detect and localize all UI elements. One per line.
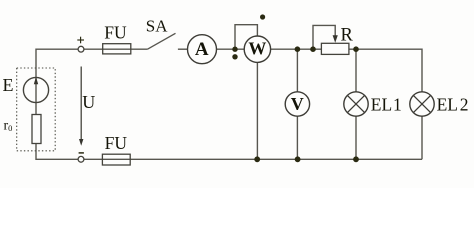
source E arrow: [34, 77, 38, 84]
wattmeter voltage-coil bracket: [235, 25, 257, 50]
wire: + terminal to FU, through fuse: [84, 48, 147, 50]
wire: wattmeter to R left edge: [271, 48, 322, 50]
switch SA blade: [148, 33, 176, 49]
wire: V branch top: [296, 49, 298, 92]
resistor r0: [32, 115, 41, 144]
fuse FU top: [103, 44, 131, 54]
lamp EL2: [410, 92, 434, 116]
rheostat wiper arrowhead: [333, 35, 338, 43]
svg-text:EL2: EL2: [437, 94, 469, 114]
rheostat wiper arm: [313, 25, 335, 49]
node: wiper junction: [310, 46, 316, 52]
wire: R right to EL2 corner and down: [349, 49, 422, 92]
svg-text:R: R: [341, 26, 354, 46]
wire: switch to ammeter: [178, 48, 188, 50]
+ terminal: [78, 46, 84, 52]
wire: W bottom branch: [256, 62, 258, 159]
wire bottom: - terminal through FU to EL2: [84, 158, 422, 160]
wattmeter W: [244, 36, 270, 62]
- terminal: [78, 156, 84, 162]
wire: EL1 branch top: [355, 49, 357, 92]
fuse FU bottom: [102, 154, 130, 165]
dashed box around source: [17, 68, 56, 151]
wire: V branch bottom: [296, 116, 298, 159]
wire: source top to + terminal: [36, 49, 78, 114]
svg-text:A: A: [195, 39, 209, 60]
svg-text:V: V: [291, 94, 304, 114]
+ label: [77, 37, 84, 44]
node: W bottom junction: [254, 156, 260, 162]
node: V branch top junction: [295, 46, 301, 52]
wattmeter floating dot top: [260, 14, 265, 19]
svg-text:r0: r0: [4, 118, 13, 133]
ammeter A: [188, 35, 217, 64]
svg-text:W: W: [248, 39, 266, 59]
svg-text:FU: FU: [104, 23, 127, 43]
source E circle: [23, 77, 48, 102]
svg-text:EL1: EL1: [371, 94, 402, 114]
node: EL1 top junction: [353, 46, 359, 52]
- label: [79, 152, 84, 154]
rheostat R: [321, 43, 349, 54]
wattmeter terminal dot on wire: [232, 47, 237, 52]
wire: EL1 branch bottom: [355, 116, 357, 159]
voltmeter V: [285, 92, 309, 116]
wattmeter terminal dot below wire: [232, 54, 237, 59]
wire: ammeter to wattmeter: [216, 48, 244, 50]
wire: source bottom to - terminal: [36, 144, 78, 160]
svg-text:U: U: [82, 92, 95, 112]
svg-text:SA: SA: [146, 16, 168, 35]
svg-text:E: E: [3, 75, 14, 95]
svg-text:FU: FU: [105, 133, 128, 153]
lamp EL1: [344, 92, 368, 116]
node: EL1 bottom junction: [353, 156, 359, 162]
wire: EL2 branch bottom: [421, 116, 423, 159]
U arrow: [79, 67, 83, 146]
node: V bottom junction: [295, 156, 301, 162]
